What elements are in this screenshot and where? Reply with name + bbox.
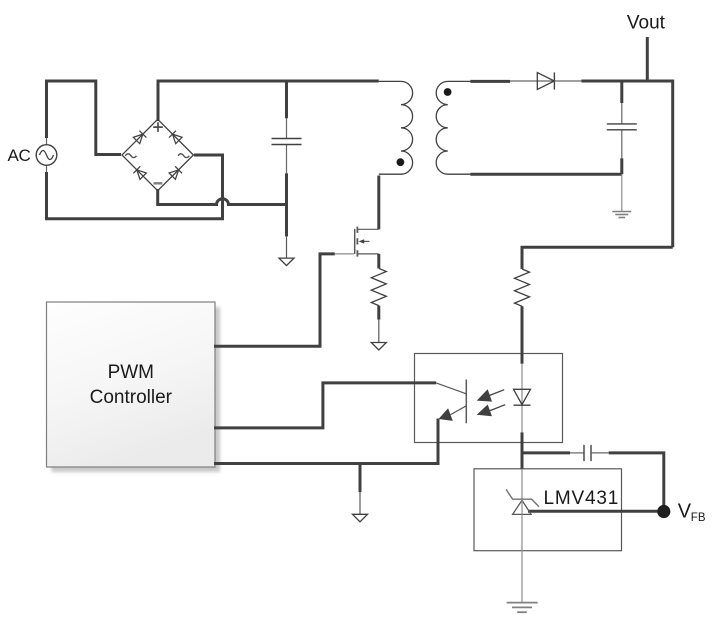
emitter wire down and left to PWM [214, 419, 438, 464]
diode D1 [510, 72, 581, 89]
primary dot [397, 158, 405, 166]
PWM controller box shadow [52, 307, 221, 472]
resistor R1 (source) [371, 254, 386, 343]
AC source V1 [36, 138, 57, 173]
ground (signal) below C1 [279, 258, 294, 266]
ground stub from PWM bottom wire [359, 464, 362, 515]
wire bridge minus with hop [158, 189, 287, 205]
gate bar [354, 229, 356, 254]
optocoupler U1 box [415, 354, 563, 443]
wire secondary bottom rail [470, 173, 622, 176]
wire AC top to bridge left [47, 81, 122, 155]
emitter slant with arrow [451, 406, 467, 415]
anode line to ground [521, 499, 523, 602]
svg-text:PWM: PWM [108, 362, 154, 383]
bulk arrow [363, 240, 370, 242]
svg-text:V: V [678, 501, 692, 523]
wire Vout corner to resistor R2 [522, 247, 673, 269]
bridge diode top-left [133, 131, 146, 144]
svg-text:LMV431: LMV431 [544, 488, 620, 509]
drain lead [357, 228, 378, 230]
ground (earth) below LMV431 [507, 603, 538, 613]
channel segments [356, 227, 358, 257]
gate lead [335, 253, 354, 255]
cathode bar with ticks [506, 489, 539, 506]
opto light arrow 2 [477, 405, 506, 417]
svg-text:AC: AC [8, 146, 31, 165]
ground (signal) below R1 [371, 343, 386, 351]
svg-text:Vout: Vout [627, 13, 666, 34]
triangle [513, 500, 532, 514]
bridge diode bottom-right [169, 166, 182, 179]
collector slant [436, 383, 466, 394]
bridge rectifier D5 [122, 119, 193, 190]
PWM controller U2 box [47, 302, 216, 467]
bridge ac tilde right [178, 154, 189, 158]
capacitor C2 output [607, 81, 637, 212]
node VFB [657, 505, 670, 518]
opto phototransistor Q2 [214, 380, 466, 464]
MOSFET Q1 [335, 227, 379, 257]
secondary dot [444, 88, 452, 96]
svg-text:FB: FB [691, 512, 706, 524]
source lead [357, 253, 378, 255]
Vout stub [646, 37, 649, 81]
wire bridge plus to top rail [158, 81, 379, 121]
bridge plus label [153, 122, 163, 132]
transformer T1 secondary [436, 81, 470, 174]
wire PWM to gate [214, 254, 335, 346]
capacitor C3 feedback [522, 445, 664, 512]
bridge ac tilde left [125, 154, 136, 158]
reference wire to VFB node [528, 510, 664, 513]
opto light arrow 1 [477, 389, 505, 401]
collector wire from PWM [214, 383, 436, 428]
wire secondary top to diode [470, 80, 510, 83]
ground (earth) below C2 [612, 212, 631, 218]
resistor R2 (feedback) [515, 269, 530, 389]
capacitor C1 [272, 81, 302, 258]
wire AC bottom rail to bridge right [47, 155, 223, 219]
svg-text:Controller: Controller [90, 387, 173, 408]
transistor bar [465, 380, 467, 424]
bridge minus label [154, 182, 163, 184]
opto LED D2 [514, 389, 531, 499]
bridge diode bottom-left [133, 166, 146, 179]
bridge diode top-right [169, 131, 182, 144]
wire primary bottom to MOSFET drain [377, 176, 380, 230]
wire diode to Vout corner [581, 81, 672, 247]
ground (signal) below PWM wire [353, 514, 368, 522]
LMV431 box [474, 469, 622, 551]
LMV431 U3 symbol [506, 489, 664, 602]
transformer T1 primary [379, 81, 413, 174]
